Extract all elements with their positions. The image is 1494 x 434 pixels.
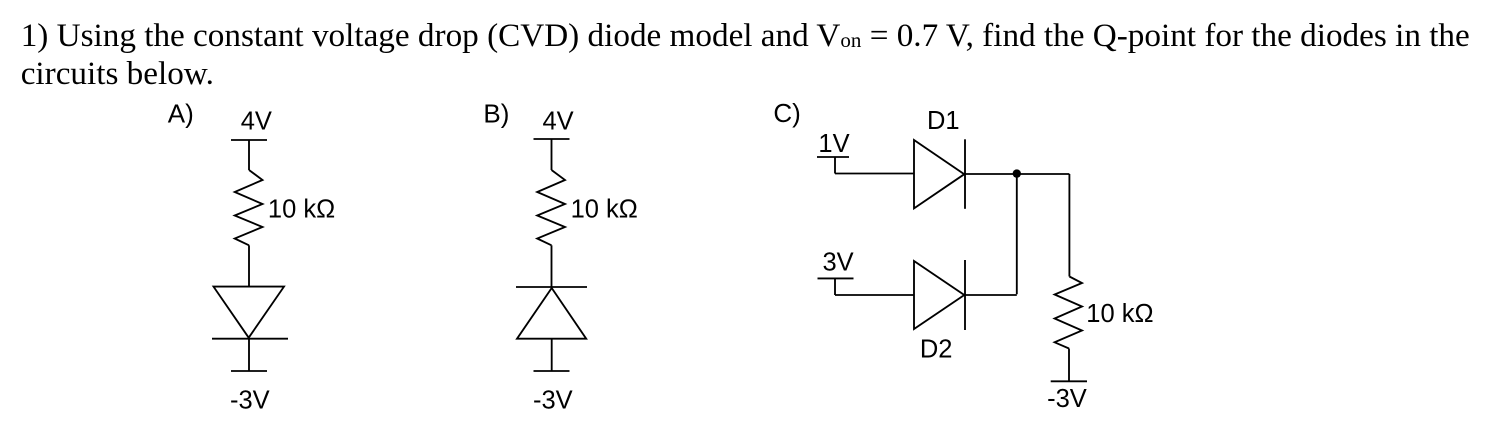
svg-text:A): A) <box>168 98 194 128</box>
svg-text:10 kΩ: 10 kΩ <box>268 196 335 224</box>
svg-text:B): B) <box>483 98 509 128</box>
svg-text:10 kΩ: 10 kΩ <box>571 196 638 224</box>
svg-text:-3V: -3V <box>1047 385 1087 413</box>
svg-text:4V: 4V <box>241 108 272 136</box>
svg-text:D1: D1 <box>927 107 960 135</box>
svg-text:3V: 3V <box>823 248 854 276</box>
svg-text:1V: 1V <box>818 130 849 158</box>
svg-text:10 kΩ: 10 kΩ <box>1086 300 1153 328</box>
svg-text:4V: 4V <box>543 108 574 136</box>
svg-text:D2: D2 <box>920 336 953 364</box>
svg-text:C): C) <box>773 98 800 128</box>
svg-text:-3V: -3V <box>533 387 573 415</box>
svg-text:-3V: -3V <box>230 387 270 415</box>
